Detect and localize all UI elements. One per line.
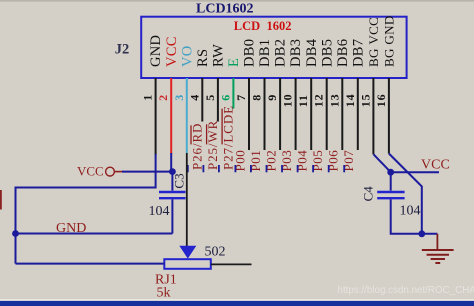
junction dot VCC node [169, 168, 176, 175]
wire: left vertical rail [15, 187, 17, 264]
svg-text:VO: VO [179, 45, 195, 67]
capacitor C4 bottom lead [391, 199, 438, 233]
net label wire stub under P00 [234, 165, 236, 172]
wire: pin 1 stub from connector [155, 78, 157, 155]
wire: pin16 diagonal down [389, 154, 422, 234]
svg-text:VCC: VCC [421, 157, 450, 172]
svg-text:LCD 1602: LCD 1602 [234, 19, 292, 33]
wire: pin 6 stub from connector [232, 78, 234, 109]
svg-text:11: 11 [296, 94, 310, 107]
capacitor C4 top lead [390, 172, 392, 190]
wire: pin2 to junction [170, 153, 172, 172]
svg-text:C3: C3 [172, 173, 187, 188]
capacitor C3 top lead [171, 172, 173, 191]
wire: pin 8 stub from connector [264, 78, 266, 150]
svg-text:C4: C4 [361, 186, 376, 202]
svg-text:502: 502 [205, 244, 226, 259]
wire: pin 4 stub from connector [201, 78, 203, 122]
wire: pin 9 stub from connector [279, 78, 281, 150]
net label wire stub under P05 [312, 165, 314, 172]
potentiometer wiper arrow [179, 246, 196, 259]
svg-text:https://blog.csdn.net/ROC_CHAO: https://blog.csdn.net/ROC_CHAO [338, 285, 474, 296]
svg-text:8: 8 [250, 95, 264, 101]
wire: pin 16 stub from connector [388, 78, 390, 154]
svg-text:7: 7 [234, 95, 248, 101]
svg-text:J2: J2 [115, 42, 130, 58]
capacitor C3 bottom lead [171, 199, 173, 233]
overline on WR of P25/WR [206, 124, 208, 144]
svg-text:104: 104 [400, 203, 421, 218]
potentiometer RJ1 body [164, 259, 211, 269]
wire: pot right lead [211, 263, 252, 265]
svg-text:DB2: DB2 [273, 39, 289, 67]
net label wire stub under P25/WR [202, 165, 204, 172]
overline on RD of P26/RD [190, 125, 192, 144]
svg-text:14: 14 [343, 94, 357, 108]
capacitor C3 plates [159, 191, 186, 193]
wire: VCC right horizontal [391, 171, 439, 173]
ground symbol stem [436, 234, 438, 250]
VCC terminal circle [106, 167, 115, 176]
svg-text:16: 16 [374, 94, 388, 108]
cropped wire at left edge [0, 190, 2, 210]
net label wire stub under P07 [343, 165, 345, 172]
wire: pin1 down then left [16, 154, 156, 188]
svg-text:LCD1602: LCD1602 [196, 1, 254, 16]
wire: pin 13 stub from connector [341, 78, 343, 150]
svg-text:4: 4 [187, 95, 201, 101]
svg-text:6: 6 [218, 95, 232, 101]
bottom frame bar highlight [0, 299, 474, 301]
net label wire stub under P04 [297, 165, 299, 172]
wire: pin 10 stub from connector [295, 78, 297, 150]
svg-text:DB1: DB1 [257, 39, 273, 67]
svg-text:DB0: DB0 [242, 39, 258, 67]
wire: pin 14 stub from connector [357, 78, 359, 150]
svg-text:P26/RD: P26/RD [190, 123, 205, 170]
ground symbol bars [422, 250, 454, 263]
svg-text:DB3: DB3 [288, 39, 304, 67]
svg-text:2: 2 [156, 95, 170, 101]
junction dot VCC right [387, 169, 394, 176]
svg-text:VCC: VCC [77, 164, 104, 179]
junction dot GND right [418, 230, 425, 237]
svg-text:BG VCC: BG VCC [366, 17, 381, 67]
svg-text:DB5: DB5 [319, 39, 335, 67]
svg-text:3: 3 [172, 95, 186, 101]
svg-text:12: 12 [312, 94, 326, 108]
wire: pot left lead [16, 263, 165, 265]
svg-text:DB7: DB7 [350, 39, 366, 67]
wire: VCC to junction [122, 171, 172, 173]
svg-text:RW: RW [211, 44, 227, 67]
wire: pin 5 stub from connector [217, 78, 219, 122]
svg-text:10: 10 [281, 94, 295, 108]
wire: pin3 VO down to wiper arrow [186, 153, 188, 247]
svg-text:104: 104 [149, 204, 170, 219]
wire: pin 15 stub from connector [372, 78, 374, 154]
svg-text:GND: GND [148, 35, 164, 67]
svg-text:BG GND: BG GND [382, 15, 397, 67]
wire: GND horizontal to C3 bottom [16, 233, 173, 235]
svg-text:DB6: DB6 [335, 39, 351, 67]
wire: pin 3 stub from connector [186, 78, 188, 153]
svg-text:DB4: DB4 [304, 38, 320, 67]
svg-text:E: E [226, 58, 242, 67]
svg-text:5: 5 [203, 95, 217, 101]
svg-text:1: 1 [141, 95, 155, 101]
wire: pin15 diagonal to VCC node [373, 154, 390, 172]
svg-text:13: 13 [327, 94, 341, 108]
capacitor C4 plates [377, 191, 404, 193]
svg-text:9: 9 [265, 95, 279, 101]
svg-text:GND: GND [56, 221, 86, 236]
net label wire stub under P03 [281, 165, 283, 172]
svg-text:VCC: VCC [164, 36, 180, 67]
connector J2 body box [141, 17, 406, 78]
junction dot on left rail [12, 230, 19, 237]
net label wire stub under P01 [250, 165, 252, 172]
top window edge line [0, 0, 474, 2]
net label wire stub under P26/RD [187, 165, 189, 172]
svg-text:RS: RS [195, 49, 211, 67]
svg-text:5k: 5k [157, 285, 171, 300]
overline on LCDE of P27/LCDE [221, 109, 223, 145]
net label wire stub under P06 [328, 165, 330, 172]
wire: pin 7 stub from connector [248, 78, 250, 150]
wire: pin 2 stub from connector [170, 78, 172, 154]
svg-text:P25/WR: P25/WR [205, 120, 220, 170]
wire: pin 11 stub from connector [310, 78, 312, 150]
wire: VCC terminal stub [114, 171, 123, 173]
bottom frame bar [0, 301, 474, 306]
wire: pin 12 stub from connector [326, 78, 328, 150]
svg-text:15: 15 [358, 94, 372, 108]
net label wire stub under P27/LCDE [218, 165, 220, 172]
net label wire stub under P02 [266, 165, 268, 172]
